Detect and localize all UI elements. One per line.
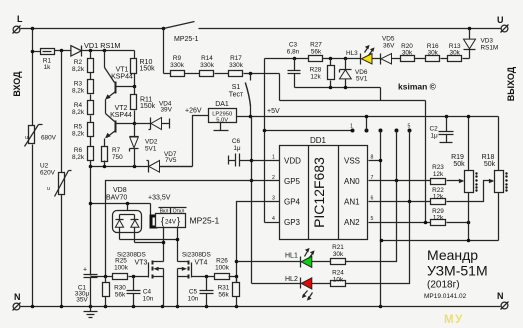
ground C1 bbox=[84, 307, 98, 318]
svg-text:Вкл: Вкл bbox=[160, 209, 169, 215]
capacitor C6 1u bbox=[229, 138, 252, 167]
wire VT3 source to gnd rail bbox=[163, 277, 165, 307]
node Откл / VD8 / sense bus bbox=[176, 238, 180, 242]
node VD2 bottom bbox=[133, 165, 137, 169]
svg-text:50k: 50k bbox=[453, 161, 465, 168]
svg-text:VD1 RS1M: VD1 RS1M bbox=[84, 41, 121, 50]
resistor R20 30k bbox=[401, 43, 415, 62]
terminal U bbox=[497, 15, 509, 33]
wire +33.5V rail (R6 column down) bbox=[90, 167, 92, 276]
wire R17 to S1 node bbox=[244, 73, 280, 75]
wire U2 to bottom rail bbox=[61, 195, 63, 307]
svg-text:R4: R4 bbox=[74, 102, 83, 109]
pin 1 VDD bbox=[252, 155, 280, 161]
svg-text:7: 7 bbox=[371, 175, 374, 181]
svg-text:1: 1 bbox=[350, 124, 353, 130]
svg-text:8,2k: 8,2k bbox=[72, 154, 85, 161]
svg-text:МР19.0141.02: МР19.0141.02 bbox=[424, 293, 467, 300]
svg-text:5V1: 5V1 bbox=[356, 76, 368, 83]
svg-text:12k: 12k bbox=[433, 214, 444, 221]
pin 3 GP4 wire to R26/HL1 rail bbox=[237, 196, 280, 283]
node R7 bottom bbox=[103, 165, 107, 169]
svg-text:5.0V: 5.0V bbox=[216, 118, 228, 124]
svg-text:C3: C3 bbox=[289, 42, 298, 49]
wire VT2 emitter to R7 bbox=[104, 139, 106, 147]
wire VD8 anode2 to Вкл rail bbox=[135, 242, 164, 244]
node U2 top junction bbox=[60, 49, 64, 53]
node ICSP pad 3 / wire to VSS and gnd bbox=[379, 129, 383, 307]
node ICSP pad 4 / wire to AN0 bbox=[395, 129, 399, 183]
svg-text:5V1: 5V1 bbox=[145, 146, 157, 153]
resistor R1 1k bbox=[31, 49, 55, 72]
resistor R22 12k bbox=[431, 187, 446, 205]
resistor R16 30k bbox=[426, 43, 440, 62]
resistor R21 30k bbox=[331, 244, 346, 265]
svg-text:AN2: AN2 bbox=[344, 218, 360, 227]
svg-text:R19: R19 bbox=[451, 154, 464, 161]
svg-text:DA1: DA1 bbox=[215, 101, 229, 108]
svg-text:100k: 100k bbox=[215, 265, 230, 272]
potentiometer R19 50k bbox=[451, 115, 478, 241]
wire R20-R16 bbox=[415, 58, 426, 60]
svg-text:VD8: VD8 bbox=[113, 187, 127, 194]
node ICSP pad 2 / wire to +5V bbox=[365, 115, 369, 133]
svg-text:+5V: +5V bbox=[267, 108, 280, 115]
svg-text:2: 2 bbox=[272, 175, 275, 181]
svg-text:AN1: AN1 bbox=[344, 198, 360, 207]
node VT2 collector / VD4 row bbox=[133, 122, 137, 126]
svg-text:S1: S1 bbox=[232, 84, 241, 91]
node L-rail junction bbox=[31, 27, 35, 31]
svg-text:10n: 10n bbox=[188, 296, 199, 303]
svg-text:VSS: VSS bbox=[344, 157, 360, 166]
resistor R23 12k bbox=[431, 164, 446, 185]
wire R13 to VD3 bbox=[463, 58, 470, 60]
svg-text:12k: 12k bbox=[433, 193, 444, 200]
svg-text:330k: 330k bbox=[200, 62, 215, 69]
svg-text:GP4: GP4 bbox=[284, 198, 301, 207]
wire L rail down to U1 bbox=[32, 29, 34, 126]
svg-text:N: N bbox=[497, 291, 504, 301]
varistor U1 680V bbox=[25, 125, 57, 147]
wire R29 to R19 bottom bbox=[447, 222, 469, 224]
resistor R2 8,2k bbox=[72, 51, 94, 74]
potentiometer R18 50k bbox=[482, 117, 508, 241]
wire U2 rail down bbox=[61, 51, 63, 173]
node C3 top bbox=[293, 57, 297, 61]
svg-text:(2018г): (2018г) bbox=[427, 280, 460, 291]
svg-text:U: U bbox=[497, 15, 504, 25]
svg-text:R6: R6 bbox=[74, 147, 83, 154]
svg-text:VD3: VD3 bbox=[481, 38, 494, 45]
node S1 top bbox=[249, 72, 253, 76]
wire R22 to R18 wiper bbox=[447, 179, 495, 202]
wire switch rail down to R9 bbox=[163, 29, 165, 74]
svg-text:3: 3 bbox=[272, 196, 275, 202]
svg-text:4: 4 bbox=[272, 216, 275, 222]
svg-text:150k: 150k bbox=[140, 103, 156, 110]
pin 4 GP3 wire bbox=[265, 216, 280, 223]
svg-text:ВЫХОД: ВЫХОД bbox=[506, 66, 516, 101]
svg-text:R28: R28 bbox=[310, 67, 322, 74]
svg-text:R27: R27 bbox=[310, 42, 322, 49]
svg-text:8: 8 bbox=[371, 155, 374, 161]
capacitor C2 1u bbox=[430, 115, 454, 143]
node R6 bottom bbox=[89, 165, 93, 169]
svg-text:56k: 56k bbox=[115, 292, 126, 299]
wire gnd bus to pot bottoms bbox=[382, 240, 499, 242]
svg-text:24V: 24V bbox=[165, 218, 177, 225]
svg-text:Меандр: Меандр bbox=[427, 247, 478, 263]
svg-text:L: L bbox=[17, 14, 23, 24]
node VT1 base tap bbox=[103, 49, 107, 53]
resistor R29 12k bbox=[431, 208, 446, 226]
diode VD8 BAV70 (dual, common cathode) bbox=[113, 202, 142, 243]
pin 8 VSS bbox=[369, 155, 381, 161]
pin 2 GP5 wire to R25 junction bbox=[106, 175, 280, 277]
svg-text:C6: C6 bbox=[232, 138, 241, 145]
svg-text:ВХОД: ВХОД bbox=[12, 71, 22, 97]
svg-text:VD5: VD5 bbox=[382, 36, 395, 43]
resistor R10 150k bbox=[131, 51, 156, 87]
wire relay Откл lead to VT4 drain bbox=[177, 228, 179, 262]
svg-text:AN0: AN0 bbox=[344, 177, 360, 186]
node VD3 top junction bbox=[468, 27, 472, 31]
wire gnd ladder top bbox=[295, 87, 381, 89]
diode VD3 RS1M bbox=[464, 29, 499, 59]
wire U1 to bottom rail bbox=[32, 145, 34, 307]
svg-text:10n: 10n bbox=[143, 296, 154, 303]
svg-text:39V: 39V bbox=[161, 107, 173, 114]
wire sense divider to gnd ladder bbox=[279, 74, 281, 101]
wire R21 to AN0 rail bbox=[346, 181, 397, 262]
svg-text:KSP44: KSP44 bbox=[111, 74, 133, 81]
wire R23 to R19 wiper bbox=[447, 179, 465, 183]
led HL3 yellow bbox=[346, 45, 381, 65]
svg-text:GP5: GP5 bbox=[284, 177, 301, 186]
node R26/R31/GP4 bbox=[235, 275, 239, 279]
svg-text:ksiman ©: ksiman © bbox=[398, 82, 437, 92]
svg-text:36V: 36V bbox=[383, 43, 395, 50]
node R19 bottom on gnd bus bbox=[467, 239, 471, 243]
svg-text:6,8n: 6,8n bbox=[287, 49, 300, 56]
transistor VT2 KSP44 bbox=[105, 105, 135, 138]
wire R16-R13 bbox=[441, 58, 448, 60]
resistor R6 8,2k bbox=[72, 137, 94, 162]
svg-text:C5: C5 bbox=[189, 289, 198, 296]
led HL1 green bbox=[235, 248, 331, 268]
node AN2 gnd tap bbox=[424, 221, 428, 225]
wire +33.5V feed bbox=[91, 203, 151, 205]
svg-text:R18: R18 bbox=[482, 154, 495, 161]
switch MP25-1 blade bbox=[162, 22, 195, 31]
svg-text:12k: 12k bbox=[310, 74, 321, 81]
node VT1 collector / R11 top bbox=[133, 85, 137, 89]
resistor R14 330k bbox=[200, 55, 215, 77]
svg-text:KSP44: KSP44 bbox=[110, 112, 132, 119]
svg-text:620V: 620V bbox=[40, 170, 56, 177]
svg-text:N: N bbox=[14, 292, 21, 302]
svg-text:R31: R31 bbox=[218, 285, 230, 292]
wire +5V rail down (DA1 to VDD, GP5, HL2) bbox=[251, 117, 253, 284]
svg-text:1: 1 bbox=[272, 155, 275, 161]
transistor VT1 KSP44 bbox=[105, 51, 135, 100]
svg-text:GP3: GP3 bbox=[284, 218, 301, 227]
resistor R5 8,2k bbox=[72, 116, 94, 138]
wire R9-R14 bbox=[185, 73, 200, 75]
svg-text:МР25-1: МР25-1 bbox=[190, 216, 220, 226]
svg-text:150k: 150k bbox=[140, 66, 156, 73]
svg-text:u: u bbox=[25, 135, 28, 141]
svg-text:МУ: МУ bbox=[444, 314, 464, 326]
svg-text:Откл: Откл bbox=[173, 209, 185, 215]
resistor R11 150k bbox=[131, 87, 156, 124]
wire gnd ladder bottom bbox=[280, 100, 426, 102]
wire AN2 sense rail bbox=[425, 101, 427, 223]
resistor R3 8,2k bbox=[72, 73, 94, 95]
svg-text:R17: R17 bbox=[230, 55, 242, 62]
svg-text:+26V: +26V bbox=[185, 108, 202, 115]
node GP5 bbox=[250, 179, 254, 183]
node ICSP pad 5 / wire to AN1 bbox=[408, 129, 412, 204]
svg-text:BAV70: BAV70 bbox=[106, 195, 127, 202]
resistor R24 10k bbox=[331, 270, 346, 287]
zener VD4 39V (bidirectional) bbox=[135, 101, 173, 130]
svg-text:МР25-1: МР25-1 bbox=[174, 36, 199, 43]
wire R14-R17 bbox=[215, 73, 229, 75]
svg-text:VT2: VT2 bbox=[115, 105, 128, 112]
svg-text:U2: U2 bbox=[40, 163, 49, 170]
svg-text:УЗМ-51М: УЗМ-51М bbox=[427, 263, 488, 279]
svg-text:12k: 12k bbox=[433, 171, 444, 178]
svg-text:+33,5V: +33,5V bbox=[148, 195, 171, 202]
capacitor C4 10n bbox=[127, 275, 154, 307]
zener VD2 5V1 bbox=[130, 124, 158, 167]
svg-text:330k: 330k bbox=[229, 62, 244, 69]
transistor VT4 Si2306DS bbox=[178, 252, 215, 279]
svg-text:10k: 10k bbox=[333, 276, 344, 283]
node R2 top bbox=[89, 49, 93, 53]
svg-text:8,2k: 8,2k bbox=[72, 88, 85, 95]
terminal N right bbox=[497, 291, 509, 310]
svg-text:1μ: 1μ bbox=[431, 133, 439, 140]
svg-text:30k: 30k bbox=[450, 50, 461, 57]
svg-text:HL2: HL2 bbox=[285, 276, 298, 283]
svg-text:5: 5 bbox=[371, 216, 374, 222]
resistor R27 56k bbox=[309, 42, 323, 62]
svg-text:6: 6 bbox=[371, 196, 374, 202]
node MCLR rail / ICSP row bbox=[263, 129, 267, 133]
svg-text:50k: 50k bbox=[484, 161, 496, 168]
wire R1 to VD1 bbox=[55, 50, 71, 52]
switch S1 Тест bbox=[229, 74, 251, 117]
svg-text:VT1: VT1 bbox=[116, 67, 129, 74]
node VD6 bottom bbox=[344, 86, 348, 90]
svg-text:R3: R3 bbox=[74, 81, 83, 88]
svg-text:1μ: 1μ bbox=[233, 145, 241, 152]
resistor R4 8,2k bbox=[72, 95, 94, 117]
capacitor C1 330u 35V bbox=[75, 267, 98, 307]
zener VD6 5V1 bbox=[340, 59, 368, 88]
led HL2 red bbox=[252, 276, 331, 301]
svg-text:56k: 56k bbox=[311, 49, 322, 56]
svg-text:HL3: HL3 bbox=[346, 50, 358, 57]
wire VT1 emitter to VT2 base bbox=[105, 100, 107, 114]
node bottom rail junctions bbox=[31, 305, 35, 309]
svg-text:7V5: 7V5 bbox=[165, 157, 177, 164]
wire top rail right (switch to U terminal) bbox=[199, 28, 501, 30]
regulator DA1 LP2950 5.0V bbox=[209, 101, 237, 124]
wire MCLR row bbox=[265, 58, 361, 60]
diode VD5 36V bbox=[381, 36, 401, 65]
node R28 bottom bbox=[329, 86, 333, 90]
node R28 top bbox=[329, 57, 333, 61]
svg-text:Тест: Тест bbox=[229, 92, 244, 99]
resistor R17 330k bbox=[229, 55, 244, 77]
wire DA1 output +5V bbox=[237, 116, 499, 118]
svg-text:750: 750 bbox=[112, 154, 123, 161]
svg-text:330k: 330k bbox=[170, 62, 185, 69]
svg-text:R9: R9 bbox=[173, 55, 182, 62]
svg-text:680V: 680V bbox=[41, 135, 57, 142]
svg-text:8,2k: 8,2k bbox=[72, 66, 85, 73]
svg-text:C4: C4 bbox=[143, 289, 152, 296]
relay MP25-1 coil 24V bbox=[156, 208, 220, 228]
resistor R7 750 bbox=[102, 147, 124, 167]
wire relay Вкл lead to VT3 drain bbox=[163, 228, 165, 262]
pin 5 AN2 wire to R29 bbox=[369, 216, 431, 223]
ground DA1 bbox=[214, 123, 229, 131]
node +33.5V rail tap bbox=[89, 202, 93, 206]
wire ICSP row bbox=[265, 130, 353, 132]
svg-text:Si2308DS: Si2308DS bbox=[182, 252, 211, 259]
svg-text:R14: R14 bbox=[201, 55, 213, 62]
svg-text:PIC12F683: PIC12F683 bbox=[311, 157, 327, 228]
wire MCLR rail down to GP3 bbox=[264, 59, 266, 223]
transistor VT3 Si2306DS bbox=[117, 252, 164, 279]
node C6/VDD bbox=[250, 159, 254, 163]
svg-text:8,2k: 8,2k bbox=[72, 109, 85, 116]
resistor R28 12k bbox=[310, 59, 335, 88]
svg-text:u: u bbox=[47, 186, 50, 192]
svg-text:HL1: HL1 bbox=[285, 253, 298, 260]
svg-text:30k: 30k bbox=[402, 50, 413, 57]
wire R6 to +26V bus bbox=[90, 161, 92, 167]
node R25/R30/GP5 bbox=[104, 275, 108, 279]
svg-text:56k: 56k bbox=[218, 292, 229, 299]
wire VT4 source to gnd rail bbox=[177, 277, 179, 307]
wire bottom rail bbox=[21, 306, 501, 308]
terminal L bbox=[13, 14, 24, 34]
wire R24 to AN1 rail bbox=[346, 202, 410, 284]
node ICSP pad 1 bbox=[351, 129, 355, 133]
svg-text:1k: 1k bbox=[44, 64, 52, 71]
wire VD8 anode1 to Откл rail bbox=[120, 239, 178, 241]
svg-text:R7: R7 bbox=[112, 147, 121, 154]
svg-text:30k: 30k bbox=[333, 251, 344, 258]
node R19 bottom / R29 bbox=[467, 221, 471, 225]
node gnd rail tap bbox=[380, 239, 384, 243]
zener VD7 7V5 bbox=[147, 151, 193, 173]
svg-text:35V: 35V bbox=[76, 297, 88, 304]
capacitor C3 6,8n bbox=[287, 42, 301, 88]
wire +26V lower bus bbox=[91, 166, 193, 168]
resistor R25 100k bbox=[106, 258, 133, 280]
node VD6 top bbox=[344, 57, 348, 61]
pin 7 AN0 wire to R23 bbox=[369, 175, 431, 181]
svg-text:C2: C2 bbox=[430, 126, 439, 133]
resistor R31 56k bbox=[218, 277, 240, 307]
svg-text:R30: R30 bbox=[114, 285, 126, 292]
node Вкл / VD8 bbox=[162, 241, 166, 245]
relay MP25-1 armature bbox=[150, 204, 158, 229]
ic DD1 PIC12F683 bbox=[280, 136, 368, 240]
ground C2 bbox=[440, 142, 453, 144]
svg-text:DD1: DD1 bbox=[310, 136, 327, 145]
svg-text:VD2: VD2 bbox=[145, 139, 158, 146]
wire top rail left (L to switch) bbox=[21, 28, 164, 30]
svg-text:VDD: VDD bbox=[284, 157, 301, 166]
wire R25 node to +33.5 rail bbox=[91, 276, 106, 278]
capacitor C5 10n bbox=[188, 275, 214, 307]
node DA1 out / S1 bottom bbox=[249, 115, 253, 119]
svg-text:+: + bbox=[83, 267, 87, 274]
svg-text:R2: R2 bbox=[74, 59, 83, 66]
svg-text:5: 5 bbox=[408, 124, 411, 130]
diode VD1 RS1M bbox=[71, 41, 121, 56]
svg-text:RS1M: RS1M bbox=[481, 45, 499, 52]
wire gnd ladder right drop bbox=[380, 88, 382, 101]
varistor U2 620V bbox=[40, 163, 72, 197]
terminal N left bbox=[13, 292, 21, 311]
wire +26V riser bbox=[193, 116, 209, 167]
svg-text:R5: R5 bbox=[74, 124, 83, 131]
resistor R30 56k bbox=[103, 277, 127, 307]
svg-text:30k: 30k bbox=[428, 50, 439, 57]
svg-text:VT4: VT4 bbox=[195, 260, 208, 267]
resistor R13 30k bbox=[448, 43, 462, 62]
resistor R26 100k bbox=[215, 258, 237, 280]
pin 6 AN1 wire to R22 bbox=[369, 196, 431, 202]
svg-text:VT3: VT3 bbox=[135, 260, 148, 267]
resistor R9 330k bbox=[164, 55, 185, 77]
svg-text:100k: 100k bbox=[114, 265, 129, 272]
svg-text:8,2k: 8,2k bbox=[72, 131, 85, 138]
wire VD1 to R2 column and VT1 base bbox=[82, 50, 135, 52]
